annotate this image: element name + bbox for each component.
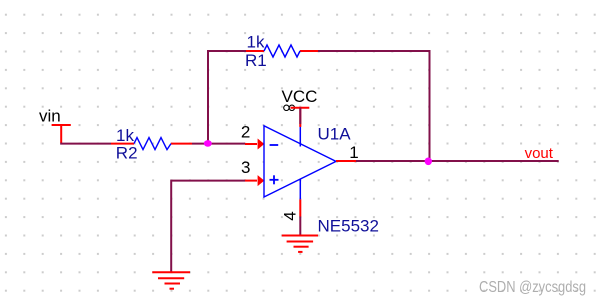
svg-text:vin: vin bbox=[39, 107, 61, 126]
wire output to vout bbox=[356, 160, 559, 162]
junction node at output bbox=[425, 158, 432, 166]
wire non-inverting input to ground bbox=[171, 181, 245, 272]
svg-text:1k: 1k bbox=[247, 33, 265, 52]
svg-text:CSDN @zycsgdsg: CSDN @zycsgdsg bbox=[479, 279, 586, 296]
power port VCC bbox=[282, 87, 318, 127]
pin 3 (non-inverting input) bbox=[241, 158, 264, 186]
svg-text:2: 2 bbox=[241, 123, 250, 142]
wire pin 4 to ground bbox=[299, 217, 301, 237]
pin 8 (V+) bbox=[299, 127, 301, 147]
ground (bottom left) bbox=[152, 272, 190, 288]
svg-text:R1: R1 bbox=[245, 51, 267, 70]
junction node at inverting input bbox=[204, 140, 212, 147]
wire VCC to pin 8 bbox=[299, 108, 301, 124]
wire feedback left/top: junction up and across to R1 bbox=[208, 51, 247, 144]
svg-text:R2: R2 bbox=[116, 144, 138, 163]
svg-text:vout: vout bbox=[525, 145, 554, 162]
port vin bbox=[39, 107, 71, 143]
pin 1 (output) bbox=[336, 143, 359, 162]
svg-text:VCC: VCC bbox=[282, 87, 318, 106]
ground (below op-amp) bbox=[282, 236, 318, 252]
svg-text:4: 4 bbox=[280, 211, 299, 220]
op-amp U1A body bbox=[264, 126, 336, 197]
wire vin to R2 bbox=[61, 143, 111, 144]
svg-text:3: 3 bbox=[241, 158, 250, 177]
resistor R1 1k bbox=[245, 33, 318, 71]
watermark CSDN bbox=[479, 279, 586, 296]
net label vout bbox=[525, 145, 554, 162]
wire feedback top-right and right vertical down to output node bbox=[318, 51, 430, 161]
designator U1A bbox=[318, 125, 352, 144]
pin 4 (V-) bbox=[280, 179, 300, 221]
value NE5532 bbox=[318, 217, 379, 236]
pin 2 (inverting input) bbox=[241, 123, 264, 150]
svg-text:1k: 1k bbox=[116, 126, 134, 145]
svg-text:NE5532: NE5532 bbox=[318, 217, 379, 236]
svg-text:1: 1 bbox=[349, 143, 358, 162]
svg-text:U1A: U1A bbox=[318, 125, 352, 144]
wire R2 to op-amp inverting input bbox=[192, 143, 245, 145]
resistor R2 1k bbox=[111, 126, 192, 163]
